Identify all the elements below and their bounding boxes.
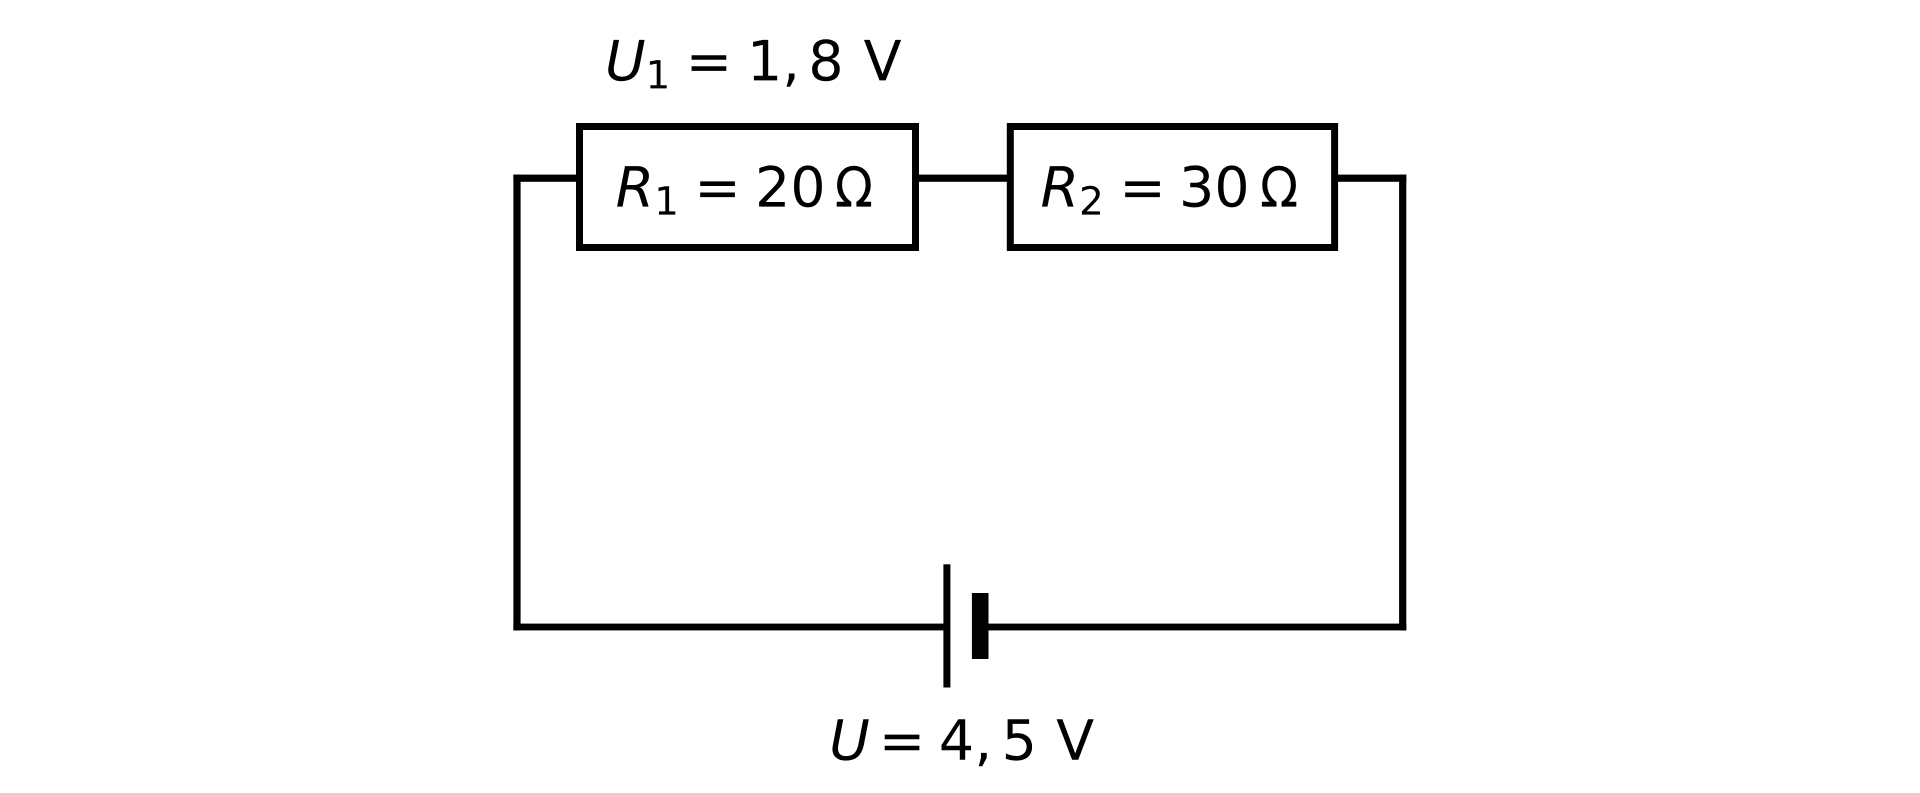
wire: bottom-left segment (left branch to battery)	[513, 624, 944, 631]
resistor R1 (box symbol)	[580, 127, 916, 248]
wire: bottom-right segment (battery to right branch)	[989, 624, 1407, 631]
wire: top-left horizontal segment (left branch to R1)	[513, 175, 578, 182]
wire: right vertical branch	[1399, 175, 1406, 631]
label: R1 = 20 Ohm (value inside R1 box)	[617, 165, 871, 214]
wire: left vertical branch	[513, 175, 520, 631]
wire: segment between R1 and R2	[916, 175, 1010, 182]
resistor R2 (box symbol)	[1010, 127, 1334, 248]
label: U = 4,5 V (battery voltage)	[832, 719, 1093, 766]
battery U: long thin positive plate	[943, 564, 950, 687]
label: R2 = 30 Ohm (value inside R2 box)	[1042, 165, 1296, 214]
wire: top-right horizontal segment (R2 to right branch)	[1335, 175, 1406, 182]
label: U1 = 1,8 V (voltage across R1)	[608, 39, 901, 88]
battery U: short thick negative plate	[972, 593, 989, 659]
